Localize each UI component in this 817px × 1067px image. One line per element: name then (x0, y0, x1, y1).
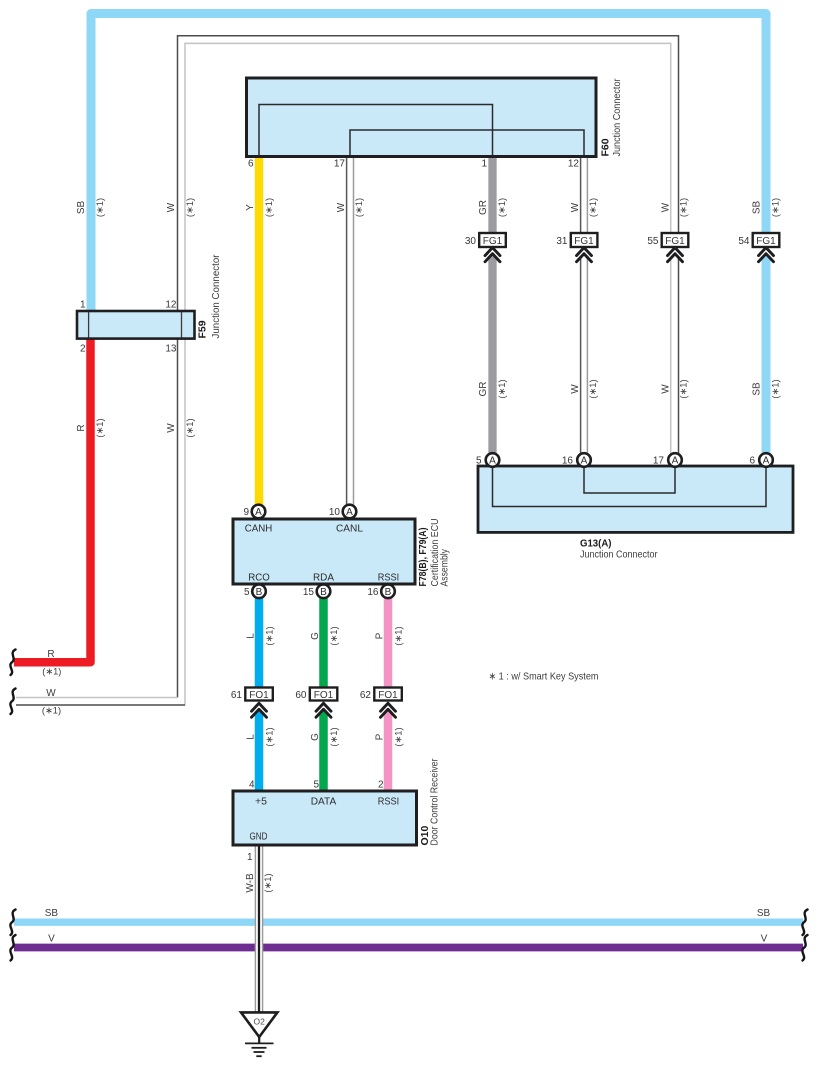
wire W (pin12) lower left line (580, 257, 582, 456)
svg-text:FG1: FG1 (665, 236, 685, 247)
break squiggle at left end of wire R (10, 650, 15, 676)
svg-text:5: 5 (313, 780, 319, 791)
svg-text:(∗1): (∗1) (393, 626, 403, 645)
svg-text:13: 13 (165, 344, 177, 355)
svg-text:SB: SB (752, 201, 763, 215)
svg-text:W: W (661, 202, 672, 212)
svg-text:Junction Connector: Junction Connector (580, 549, 658, 561)
svg-text:(∗1): (∗1) (497, 379, 507, 398)
svg-text:(∗1): (∗1) (264, 727, 274, 746)
svg-text:Assembly: Assembly (439, 548, 451, 586)
wire L: ECU pin 5 RCO down through FO1 61 to receiver pin 4 (255, 595, 264, 700)
svg-text:P: P (375, 632, 386, 639)
svg-text:(∗1): (∗1) (678, 198, 688, 217)
svg-text:1: 1 (481, 159, 487, 170)
svg-text:1: 1 (80, 300, 86, 311)
svg-text:(∗1): (∗1) (264, 198, 274, 217)
svg-text:2: 2 (378, 780, 384, 791)
svg-text:12: 12 (165, 300, 177, 311)
shield connector FG1 no.54 (738, 233, 779, 247)
wire G lower segment below FO1 60 arrow (319, 709, 328, 792)
svg-text:(∗1): (∗1) (42, 706, 61, 716)
svg-text:B: B (320, 587, 327, 598)
wire W: F60 pin 12 down through FG1 31 to G13 pin 16 (580, 155, 582, 234)
svg-text:FG1: FG1 (483, 236, 503, 247)
shield arrow under FO1 no.60 (316, 703, 331, 717)
svg-text:G: G (310, 733, 321, 741)
svg-text:60: 60 (295, 690, 307, 701)
svg-text:W-B: W-B (245, 873, 256, 893)
svg-text:12: 12 (568, 159, 580, 170)
svg-text:W: W (570, 384, 581, 394)
break squiggle at left end of bottom SB rail (10, 910, 15, 936)
svg-text:(∗1): (∗1) (678, 379, 688, 398)
ECU pin 10 terminal circle A (343, 505, 357, 519)
svg-text:(∗1): (∗1) (770, 198, 780, 217)
wire SB bottom horizontal rail (14, 919, 803, 926)
shield arrow under FG1 no.54 (759, 248, 774, 262)
shield arrow under FG1 no.55 (668, 248, 683, 262)
wire W bottom-left horizontal light line (to break squiggle) (16, 697, 178, 699)
svg-text:W: W (570, 202, 581, 212)
junction connector G13(A) body (478, 466, 793, 532)
svg-text:W: W (336, 202, 347, 212)
svg-text:FO1: FO1 (249, 690, 269, 701)
svg-text:1: 1 (247, 852, 253, 863)
ECU pin 5 terminal circle B (252, 585, 266, 599)
svg-text:Y: Y (245, 204, 256, 211)
G13 pin 17 terminal circle A (668, 453, 682, 467)
svg-text:O2: O2 (254, 1017, 266, 1027)
svg-text:(∗1): (∗1) (185, 198, 195, 217)
wire SB lower segment below FG1 54 arrow (762, 254, 771, 456)
svg-text:5: 5 (476, 456, 482, 467)
svg-text:GND: GND (250, 831, 268, 843)
wire W bottom-left horizontal dark line (16, 704, 185, 706)
svg-text:9: 9 (243, 507, 249, 518)
svg-text:16: 16 (367, 587, 379, 598)
svg-text:30: 30 (465, 236, 477, 247)
svg-text:A: A (346, 507, 353, 518)
shield connector FG1 no.55 (647, 233, 688, 247)
svg-text:31: 31 (556, 236, 568, 247)
svg-text:B: B (385, 587, 392, 598)
shield arrow under FO1 no.61 (252, 703, 267, 717)
svg-text:F60: F60 (600, 138, 612, 156)
svg-text:V: V (761, 934, 768, 945)
svg-text:L: L (246, 633, 257, 639)
svg-text:W: W (46, 688, 56, 699)
svg-text:FG1: FG1 (574, 236, 594, 247)
shield arrow under FO1 no.62 (381, 703, 396, 717)
G13 pin 6 terminal circle A (759, 453, 773, 467)
wire P: ECU pin 16 RSSI down through FO1 62 to receiver pin 2 (384, 595, 393, 700)
svg-text:R: R (47, 649, 54, 660)
svg-text:+5: +5 (255, 796, 267, 808)
svg-text:(∗1): (∗1) (393, 727, 403, 746)
shield connector FG1 no.31 (556, 233, 597, 247)
shield connector FO1 no.60 (295, 688, 337, 702)
wire GR: F60 pin 1 down through FG1 30 to G13 pin 5 (488, 155, 496, 234)
svg-text:6: 6 (749, 456, 755, 467)
door control receiver O10 body (233, 791, 417, 845)
svg-text:(∗1): (∗1) (329, 727, 339, 746)
svg-text:W: W (661, 384, 672, 394)
svg-text:RDA: RDA (313, 572, 334, 584)
svg-text:F78(B), F79(A): F78(B), F79(A) (417, 528, 429, 587)
wire W main loop light outline (185, 43, 671, 705)
shield connector FO1 no.61 (231, 688, 273, 702)
svg-text:(∗1): (∗1) (329, 626, 339, 645)
svg-text:SB: SB (45, 908, 59, 919)
svg-text:F59: F59 (197, 320, 209, 338)
wire W: F60 pin 17 down to ECU pin 10 CANL (two outline lines) (346, 155, 348, 506)
svg-text:RCO: RCO (248, 572, 270, 584)
svg-text:5: 5 (244, 587, 250, 598)
break squiggle at right end of bottom SB rail (802, 910, 807, 936)
svg-text:V: V (48, 934, 55, 945)
break squiggle at left end of wire W (10, 689, 15, 715)
svg-text:(∗1): (∗1) (588, 198, 598, 217)
svg-text:17: 17 (334, 159, 346, 170)
svg-text:62: 62 (360, 690, 372, 701)
svg-text:(∗1): (∗1) (185, 418, 195, 437)
svg-text:GR: GR (478, 200, 489, 215)
wire R: F59 pin 2 down then left to break squiggle (14, 336, 91, 662)
svg-text:R: R (76, 424, 87, 431)
svg-text:CANH: CANH (245, 523, 273, 535)
svg-text:Junction Connector: Junction Connector (210, 254, 222, 338)
svg-text:A: A (489, 456, 496, 467)
svg-text:FO1: FO1 (314, 690, 334, 701)
svg-text:(∗1): (∗1) (497, 198, 507, 217)
svg-text:61: 61 (231, 690, 243, 701)
wire V bottom horizontal rail (14, 944, 803, 952)
ECU pin 15 terminal circle B (317, 585, 331, 599)
break squiggle at right end of bottom V rail (802, 935, 807, 961)
G13 pin 5 terminal circle A (486, 453, 500, 467)
svg-text:6: 6 (248, 159, 254, 170)
junction connector F59 body (77, 311, 195, 339)
svg-text:∗ 1 : w/ Smart Key System: ∗ 1 : w/ Smart Key System (489, 671, 599, 683)
junction connector F60 body (247, 78, 597, 157)
ECU pin 9 terminal circle A (252, 505, 266, 519)
svg-text:A: A (581, 456, 588, 467)
svg-text:2: 2 (80, 344, 86, 355)
svg-text:16: 16 (562, 456, 574, 467)
break squiggle at left end of bottom V rail (10, 935, 15, 961)
shield connector FG1 no.30 (465, 233, 506, 247)
svg-text:CANL: CANL (336, 523, 363, 535)
svg-text:Door Control Receiver: Door Control Receiver (429, 758, 441, 845)
shield connector FO1 no.62 (360, 688, 402, 702)
wire L lower segment below FO1 61 arrow (255, 709, 264, 792)
shield arrow under FG1 no.30 (485, 248, 500, 262)
svg-text:17: 17 (653, 456, 665, 467)
wire W loop right leg lower dark (678, 258, 680, 456)
svg-text:10: 10 (329, 507, 341, 518)
svg-text:54: 54 (738, 236, 750, 247)
svg-text:4: 4 (249, 780, 255, 791)
svg-text:DATA: DATA (311, 796, 337, 808)
svg-text:FG1: FG1 (756, 236, 776, 247)
svg-text:GR: GR (478, 382, 489, 397)
svg-text:W: W (166, 423, 177, 433)
ECU pin 16 terminal circle B (381, 585, 395, 599)
svg-text:W: W (166, 202, 177, 212)
wire W main loop dark outline: left leg x=177.5 up, top, right leg down to G13 pin 17 (178, 36, 679, 698)
svg-text:A: A (672, 456, 679, 467)
ground symbol O2 (241, 1012, 277, 1056)
svg-text:(∗1): (∗1) (770, 379, 780, 398)
wire GR lower segment below FG1 30 arrow (488, 254, 496, 456)
svg-text:(∗1): (∗1) (354, 198, 364, 217)
svg-text:15: 15 (303, 587, 315, 598)
svg-text:L: L (246, 734, 257, 740)
svg-text:(∗1): (∗1) (95, 198, 105, 217)
svg-text:SB: SB (76, 201, 87, 215)
svg-text:(∗1): (∗1) (263, 873, 273, 892)
wire Y: F60 pin 6 down to ECU pin 9 CANH (255, 155, 264, 506)
certification ECU F78(B),F79(A) body (233, 519, 415, 584)
svg-text:SB: SB (752, 382, 763, 396)
svg-text:P: P (375, 733, 386, 740)
svg-text:(∗1): (∗1) (588, 379, 598, 398)
wire W (pin12) lower right line (586, 257, 588, 456)
svg-text:(∗1): (∗1) (95, 418, 105, 437)
svg-text:A: A (763, 456, 770, 467)
wire W-B: receiver pin 1 GND down to ground O2 (white underlay + outlines + black stripe) (255, 844, 262, 1013)
svg-text:G: G (310, 632, 321, 640)
svg-text:B: B (256, 587, 263, 598)
svg-text:RSSI: RSSI (378, 796, 400, 808)
svg-text:(∗1): (∗1) (264, 626, 274, 645)
svg-text:FO1: FO1 (378, 690, 398, 701)
svg-text:SB: SB (757, 908, 771, 919)
svg-text:A: A (255, 507, 262, 518)
shield arrow under FG1 no.31 (577, 248, 592, 262)
svg-text:RSSI: RSSI (378, 572, 400, 584)
G13 pin 16 terminal circle A (577, 453, 591, 467)
wire W loop right leg lower light (670, 258, 672, 456)
wire G: ECU pin 15 RDA down through FO1 60 to receiver pin 5 (319, 595, 328, 700)
svg-text:(∗1): (∗1) (42, 667, 61, 677)
svg-text:Junction Connector: Junction Connector (611, 78, 623, 156)
svg-text:55: 55 (647, 236, 659, 247)
wire P lower segment below FO1 62 arrow (384, 709, 393, 792)
wire SB: F59 pin 1 up, across top, down right side through FG1 54 to G13 pin 6 (91, 14, 766, 315)
